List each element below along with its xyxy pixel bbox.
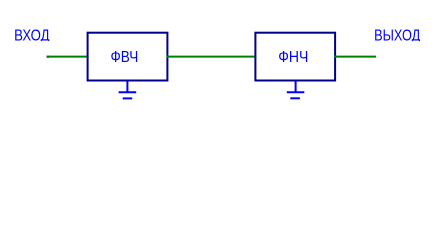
wire: LPF to output xyxy=(334,56,376,58)
ground GND1 (under U1) xyxy=(119,81,137,99)
wire: HPF to LPF xyxy=(166,56,256,58)
block U2 ФНЧ (low-pass filter) xyxy=(255,33,335,81)
block U1 ФВЧ (high-pass filter) xyxy=(88,33,168,81)
wire input terminal dot xyxy=(47,56,49,58)
wire: input to HPF xyxy=(47,56,89,58)
ground GND2 (under U2) xyxy=(287,81,305,99)
